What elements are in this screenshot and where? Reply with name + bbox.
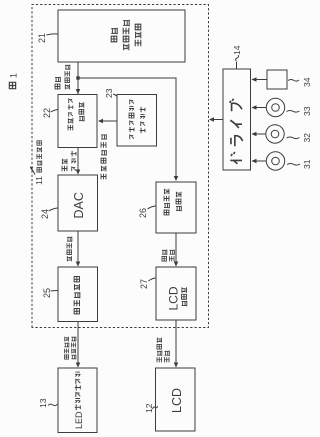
svg-text:22: 22 [42,108,52,118]
block 13 LEDバックライト [58,368,97,433]
label 24 with leader [40,208,58,219]
wire label 波形選択信号 [101,134,106,179]
label 32 with wavy leader [287,133,313,143]
block 26 画像信号生成部 [156,182,196,233]
block 23 コントロールスイッチ [117,95,157,147]
svg-text:26: 26 [138,208,148,218]
svg-text:DAC: DAC [72,192,86,218]
wire label 波形/データ [62,151,76,171]
svg-text:23: 23 [104,88,114,98]
block 25 電流制御部 [58,267,98,322]
component 33 (dial, double circle) [266,98,284,116]
wire 24 to 25 [76,231,81,267]
figure title 図1 [9,73,19,89]
svg-text:34: 34 [302,77,312,87]
wire 31 to 14 [252,159,267,164]
svg-text:LCD: LCD [167,286,181,310]
block 14 ドライブ (drive) [223,69,251,170]
svg-text:13: 13 [38,398,48,408]
svg-text:11: 11 [34,176,44,185]
wire label 表示画面/信号 [157,338,169,363]
node label 11 with arrow and name 表示制御部 [29,141,44,185]
label 21 with leader [37,33,58,43]
label 31 with wavy leader [287,159,312,169]
svg-text:32: 32 [302,133,312,143]
wire branch junction to 26 [78,78,178,181]
wire 23 to 22 [98,119,117,124]
label 12 with wavy leader [144,403,158,413]
wire 27 to 12 (crosses dashed border) [174,320,179,368]
label 34 with wavy leader [288,77,312,87]
svg-text:25: 25 [42,288,52,298]
outer dashed box: display control unit 11 [32,5,209,328]
svg-text:14: 14 [232,45,242,55]
block 22 波形データ生成部 [58,95,97,148]
svg-text:31: 31 [302,159,312,169]
block 12 LCD [156,368,196,431]
block 24 DAC [58,175,98,231]
wire 22 to 24 DAC [76,148,81,175]
svg-text:21: 21 [37,33,47,43]
svg-text:LCD: LCD [170,388,184,413]
wire label 駆動電流/制御信号 [64,337,76,360]
label 13 with wavy leader [38,398,58,408]
block 21 画像期間信号生成部 [58,10,185,62]
wire label 画像/期間信号 [55,65,70,90]
component 31 (dial, double circle) [266,152,284,170]
block 27 LCD制御部 [156,267,196,320]
label 23 with leader [104,88,117,98]
label 27 with leader [139,278,156,289]
svg-text:1: 1 [9,73,19,78]
svg-text:33: 33 [302,106,312,116]
label 33 with wavy leader [287,106,313,116]
label 26 with leader [138,206,156,218]
wire 26 to 27 [174,233,179,267]
wire label 輝度信号 [67,237,72,262]
svg-text:27: 27 [139,279,149,289]
wire 21 to 22 (基準期間信号) with junction [76,62,81,94]
label 14 with leader [232,45,242,69]
wire 14 to 11 (arrow into dashed box) [209,117,223,122]
label 22 with leader [42,108,58,118]
wire label 画像/信号 [162,250,174,262]
label 25 with leader [42,288,58,298]
component 34 (box) [267,70,287,89]
component 32 (dial, double circle) [266,125,284,143]
wire 32 to 14 [252,132,266,137]
svg-text:LED: LED [74,411,84,429]
wire 34 to 14 [252,77,268,82]
wire 33 to 14 [252,105,267,110]
wire 25 to 13 (crosses dashed border) [76,322,81,368]
